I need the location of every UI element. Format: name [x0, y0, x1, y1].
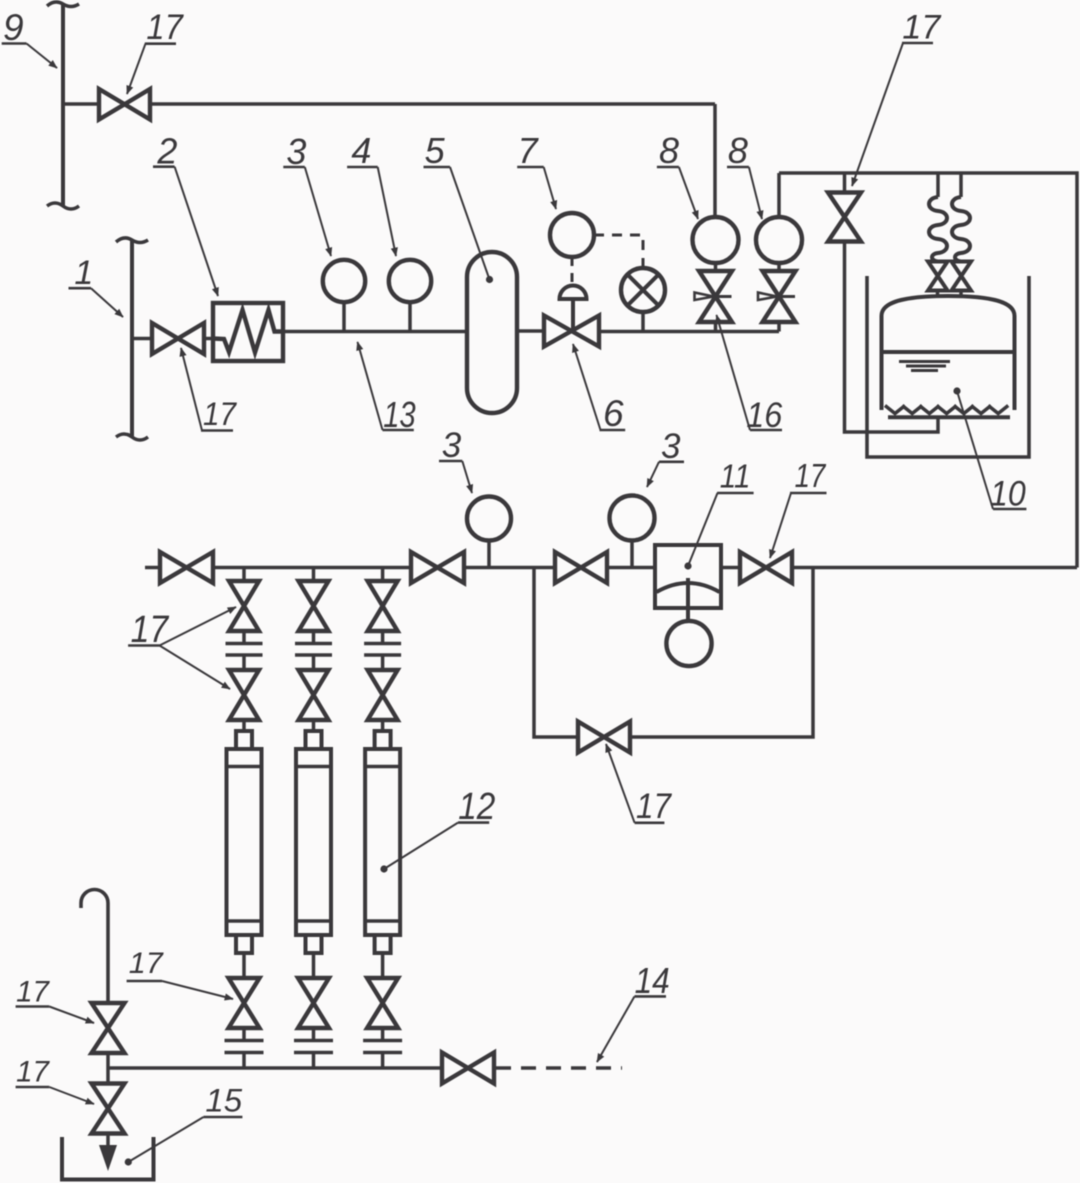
- column 3 bottom valve: [367, 978, 398, 1028]
- valve (bottom line, before outlet 14): [442, 1053, 494, 1084]
- column 2 upper valve: [299, 581, 329, 631]
- valve (line B, left of flowmeter 11): [555, 552, 607, 583]
- svg-text:7: 7: [518, 130, 540, 171]
- wire line B (flowmeter to valve 17): [721, 566, 740, 570]
- wire stub node1 to valve: [132, 337, 152, 341]
- valve 17 (drain lower): [92, 1084, 125, 1134]
- wire fill pipe down and under vessel 10: [845, 242, 939, 433]
- svg-text:17: 17: [16, 1056, 50, 1089]
- valve 17 (inside box): [828, 193, 861, 242]
- column 1 lower valve 17: [229, 670, 259, 720]
- vent hook (swan neck pipe): [81, 890, 108, 1003]
- vessel 10 bottom plate: [888, 415, 1010, 419]
- gauge 3 (on line B, left): [487, 540, 491, 568]
- valve 17 (line B, right of flowmeter): [740, 552, 792, 583]
- wire line B (valve to manifold valve): [213, 566, 411, 570]
- svg-text:3: 3: [661, 427, 681, 466]
- svg-text:4: 4: [351, 130, 371, 171]
- svg-text:17: 17: [129, 947, 164, 980]
- svg-text:17: 17: [795, 458, 827, 495]
- column 1 bottom valve 17: [229, 978, 260, 1028]
- vessel 15 (open collection tank): [62, 1137, 154, 1180]
- wire line B to box right edge: [792, 566, 1077, 570]
- column 2 lower valve: [299, 670, 329, 720]
- safety valve 16 (under first gauge 8): [714, 263, 718, 271]
- column 3 adsorber 12 (cylinder): [381, 720, 385, 731]
- column 3 bottom union flange: [381, 1028, 385, 1041]
- bellows hose right: [959, 173, 963, 197]
- wire top line to right: [150, 102, 715, 106]
- valve 17 (drain upper): [92, 1003, 125, 1053]
- node 1 (pipe break boundary, left): [116, 238, 148, 440]
- column 1 tap wire: [242, 568, 246, 582]
- wire lamp stem: [641, 312, 645, 332]
- column 1 bottom union flange: [242, 1028, 246, 1041]
- vessel 10 liquid level line: [882, 350, 1015, 354]
- pressure sensor 7 (circle): [550, 213, 594, 257]
- svg-text:17: 17: [146, 8, 184, 47]
- column 2 adsorber 12 (cylinder): [312, 720, 316, 731]
- column 2 bottom valve: [298, 978, 329, 1028]
- wire dashed sensor link down to actuator: [571, 257, 574, 285]
- svg-text:17: 17: [203, 396, 237, 432]
- bellows hose left: [936, 173, 940, 197]
- gauge 4 (manometer on line 13): [408, 303, 412, 332]
- valve 17 (line B left end): [160, 552, 213, 583]
- drain arrow into vessel 15: [106, 1134, 110, 1149]
- wire line B (to pressure valve): [464, 566, 555, 570]
- small valve (left, on vessel 10 neck): [928, 262, 948, 291]
- vessel 5 (receiver capsule): [467, 252, 517, 413]
- valve 17 (top left, on top line): [99, 89, 150, 120]
- wire drop to gauge 8: [713, 104, 717, 218]
- wire valve to filter 2: [204, 337, 213, 341]
- enclosure box (cryostat cabinet): [779, 173, 1077, 568]
- column 2 union flange: [312, 631, 316, 643]
- wire line 13 (filter to vessel 5): [283, 330, 467, 334]
- column 3 lower valve: [368, 670, 398, 720]
- svg-text:17: 17: [636, 786, 672, 826]
- svg-text:9: 9: [3, 7, 24, 48]
- column 2 tap wire: [312, 568, 316, 582]
- gauge 3 (on line B, right): [630, 540, 634, 568]
- valve 6 (control valve with diaphragm actuator): [544, 316, 599, 347]
- indicator lamp (circle with X): [621, 268, 665, 312]
- wire dashed outlet 14: [496, 1066, 622, 1070]
- column 1 upper valve 17: [229, 581, 259, 631]
- svg-text:15: 15: [205, 1083, 242, 1119]
- svg-text:3: 3: [442, 426, 462, 465]
- wire line 13 (valve 6 to under gauges 8): [599, 330, 779, 334]
- flowmeter 11 (box with scale arc and counter): [655, 545, 721, 608]
- column 2 bottom union flange: [312, 1028, 316, 1041]
- valve (line B, right of column taps): [411, 552, 464, 583]
- svg-text:5: 5: [425, 130, 446, 171]
- filter 2 (box with zigzag): [213, 303, 283, 361]
- wire bottom drain line: [108, 1066, 442, 1070]
- svg-text:10: 10: [990, 474, 1026, 513]
- svg-text:17: 17: [16, 975, 50, 1008]
- vessel 10 support grid (zigzag): [885, 406, 905, 414]
- column 3 upper valve: [368, 581, 398, 631]
- safety valve (under second gauge 8): [777, 263, 781, 271]
- gauge 8 (first, circle): [693, 217, 739, 263]
- column 1 adsorber 12 (cylinder): [242, 720, 246, 731]
- vessel 10 level ripples: [899, 360, 950, 363]
- cryostat (open dewar around vessel 10): [867, 276, 1029, 457]
- wire bypass loop: [534, 568, 813, 738]
- small valve (right, on vessel 10 neck): [952, 262, 972, 291]
- wire stem to valve 17 in box: [843, 173, 847, 193]
- column 3 tap wire: [381, 568, 385, 582]
- svg-text:11: 11: [720, 459, 751, 496]
- wire dashed sensor link to lamp: [594, 235, 643, 266]
- wire top line from node 9: [63, 102, 99, 106]
- wire between drain valves: [106, 1053, 110, 1084]
- wire stem second gauge 8 up to box: [777, 173, 781, 217]
- valve 17 (after node 1): [152, 323, 204, 354]
- svg-text:14: 14: [635, 960, 670, 1001]
- node 9 (pipe break boundary, left top): [47, 2, 79, 209]
- svg-text:8: 8: [659, 130, 679, 171]
- valve 17 (bypass): [578, 722, 630, 753]
- svg-text:1: 1: [74, 254, 93, 292]
- svg-text:8: 8: [728, 130, 748, 171]
- wire line B left stub: [145, 566, 160, 570]
- svg-text:17: 17: [902, 8, 941, 46]
- svg-text:6: 6: [603, 393, 624, 434]
- wire vessel 5 to valve 6: [517, 329, 544, 333]
- gauge 8 (second, circle): [756, 217, 802, 263]
- column 3 union flange: [381, 631, 385, 643]
- column 1 union flange: [242, 631, 246, 643]
- svg-text:2: 2: [156, 130, 177, 171]
- wire line B (valve to flowmeter): [607, 566, 655, 570]
- gauge 3 (manometer on line 13): [342, 303, 346, 332]
- vessel 10 (tank with dome): [882, 296, 1015, 410]
